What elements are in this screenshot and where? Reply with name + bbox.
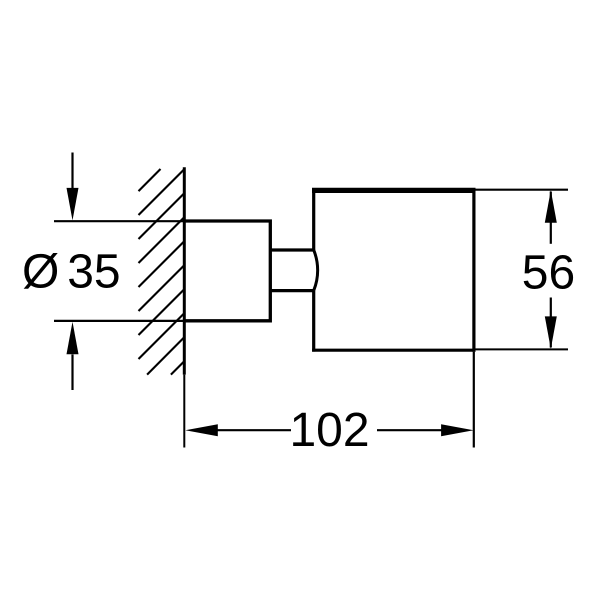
extension line bottom (d35 lower)	[54, 320, 185, 322]
extension line top (d35 upper)	[54, 220, 185, 222]
56 dimension line upper segment	[550, 192, 552, 244]
cup back arc at neck	[314, 250, 318, 291]
cup left edge lower	[312, 291, 315, 352]
extension line top of 56	[476, 189, 569, 191]
cup left edge upper	[312, 189, 315, 250]
svg-text:56: 56	[522, 246, 575, 299]
cup rim thick top edge	[312, 188, 476, 193]
svg-text:35: 35	[67, 246, 120, 299]
56 dimension line lower segment	[550, 298, 552, 348]
neck top line	[270, 248, 314, 251]
102 dimension line right segment with arrow	[377, 429, 442, 431]
wall face line	[183, 167, 186, 374]
neck bottom line	[270, 289, 314, 292]
svg-text:102: 102	[289, 404, 369, 457]
56 dimension arrow up	[545, 190, 557, 223]
extension line left of 102 (below wall)	[183, 375, 185, 448]
wall hatching	[139, 169, 185, 375]
102 dimension line left segment with arrow	[217, 429, 291, 431]
wall mount cylinder outline	[185, 221, 271, 321]
svg-text:Ø: Ø	[22, 246, 59, 299]
56 dimension arrow down	[545, 316, 557, 349]
d35 dimension arrow top	[71, 153, 73, 190]
extension line bottom of 56	[476, 348, 569, 350]
cup bottom edge	[312, 349, 475, 352]
cup right edge	[472, 188, 475, 352]
d35 dimension arrow bottom	[71, 355, 73, 391]
extension line right of 102 (below cup)	[473, 352, 475, 448]
